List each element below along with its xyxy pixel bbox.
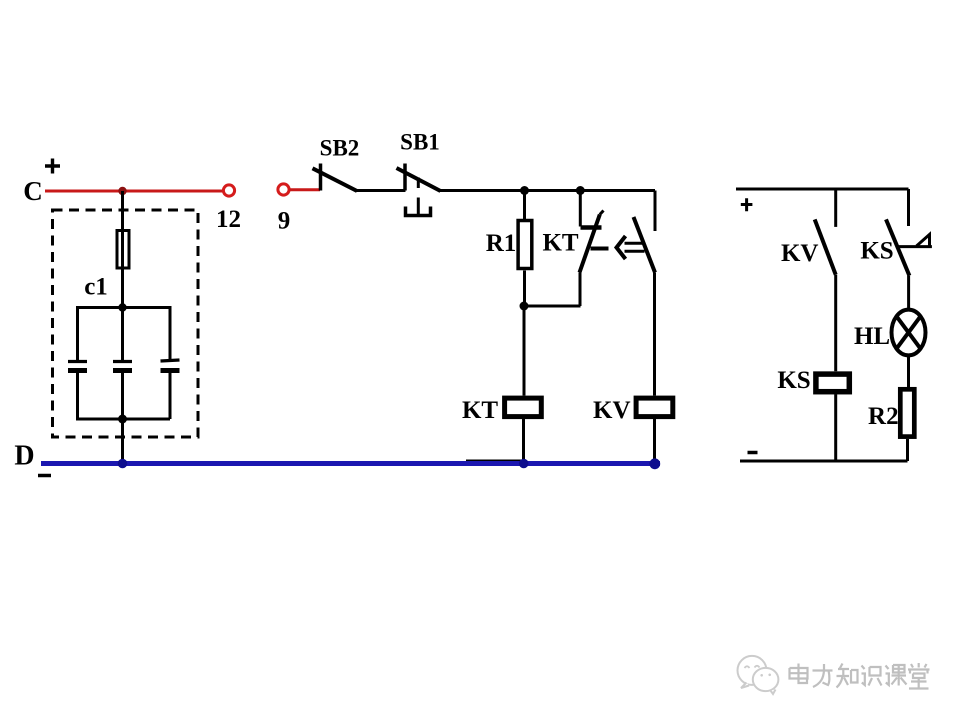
capacitor bank bottom bus: [76, 418, 170, 421]
node D label: [14, 441, 51, 476]
contact KS with signal flag: [860, 219, 932, 309]
wire right circuit bottom bus: [740, 460, 908, 463]
fuse FU: [117, 229, 129, 308]
delay arrow symbol: [591, 236, 645, 259]
time relay contact KT (delayed): [542, 191, 603, 307]
junction dot cap top: [118, 303, 126, 311]
junction dot D at KT coil tail: [519, 459, 529, 469]
svg-text:R1: R1: [486, 230, 517, 257]
relay coil KV: [593, 397, 673, 462]
junction dot D at KV coil tail: [649, 458, 660, 469]
contact KV (voltage relay): [781, 189, 836, 371]
capacitor Cb (middle): [113, 308, 132, 420]
pushbutton SB2: [313, 136, 360, 192]
wire R1 node down to KT coil: [523, 306, 526, 396]
wire lamp to R2: [907, 356, 910, 388]
wire SB2 to SB1: [356, 189, 406, 192]
terminal 12: [216, 185, 241, 233]
svg-text:KV: KV: [781, 240, 819, 267]
glyph 课: [886, 665, 907, 686]
right circuit + label: [741, 198, 753, 211]
wire right circuit top-right corner down: [907, 189, 910, 226]
wire cap bank to D bus: [121, 419, 124, 462]
relay coil KT: [462, 397, 541, 462]
capacitor bank top bus: [76, 306, 172, 309]
capacitor Cc (right): [161, 308, 180, 420]
black wire remnant under D bus: [466, 460, 523, 462]
junction node b (KT contact top): [576, 186, 585, 195]
pushbutton SB1: [397, 130, 441, 216]
wire terminal 9 to SB2 (red): [290, 188, 321, 191]
wire C bus (red): [45, 190, 223, 193]
terminal 9: [278, 184, 291, 235]
capacitor unit dashed enclosure: [53, 210, 199, 437]
resistor R1: [486, 191, 532, 307]
svg-text:12: 12: [216, 206, 241, 233]
junction dot D at capacitor tail: [118, 459, 128, 469]
junction dot R1 bottom: [520, 302, 529, 311]
junction dot on C bus: [118, 187, 126, 195]
contact KV auxiliary (self-hold): [634, 191, 656, 396]
svg-text:C: C: [23, 176, 43, 206]
wire C bus down to fuse: [121, 191, 124, 229]
lamp HL: [854, 310, 926, 356]
svg-text:HL: HL: [854, 323, 890, 350]
watermark text 电力知识课堂: [790, 663, 930, 689]
watermark logo chat bubbles: [738, 656, 779, 694]
svg-text:SB1: SB1: [400, 130, 440, 155]
svg-text:SB2: SB2: [320, 136, 360, 161]
wire top bus SB1 to corner: [440, 189, 655, 192]
wire R1 bottom to KT contact bottom: [524, 305, 581, 308]
right circuit - label: [748, 451, 758, 455]
svg-text:c1: c1: [84, 274, 108, 301]
junction dot cap bottom: [118, 415, 127, 424]
svg-text:KT: KT: [542, 230, 578, 257]
svg-text:D: D: [14, 441, 34, 472]
svg-text:KV: KV: [593, 397, 631, 424]
svg-text:KS: KS: [860, 238, 893, 265]
glyph 识: [862, 666, 882, 686]
svg-text:R2: R2: [868, 403, 899, 430]
bus D (blue): [41, 461, 660, 466]
svg-text:9: 9: [278, 208, 291, 235]
node C label: [23, 159, 60, 207]
capacitor Ca (left): [68, 308, 87, 420]
black wire remnant near KV coil tail: [630, 461, 655, 463]
svg-text:KS: KS: [777, 367, 810, 394]
wire right circuit top bus: [736, 188, 909, 191]
glyph 力: [813, 664, 833, 687]
resistor R2: [868, 389, 914, 461]
glyph 知: [837, 664, 858, 688]
junction node a (R1 top): [520, 186, 529, 195]
relay coil KS: [777, 367, 849, 461]
glyph 电: [790, 664, 808, 684]
svg-text:KT: KT: [462, 397, 498, 424]
glyph 堂: [908, 663, 930, 689]
